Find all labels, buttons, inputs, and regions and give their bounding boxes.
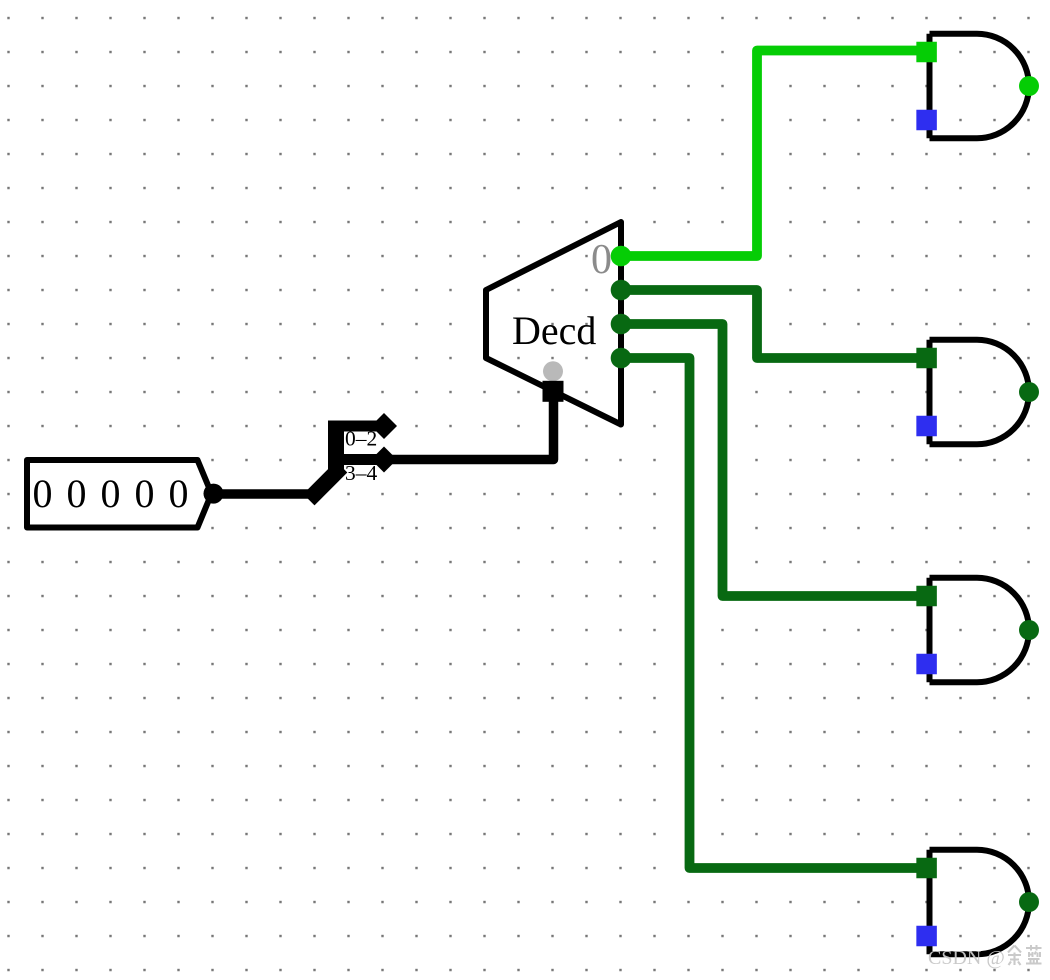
gate G2 input B port square (floating) <box>916 416 937 437</box>
svg-text:0: 0 <box>67 471 87 516</box>
gate G3 input B port square (floating) <box>916 654 937 675</box>
svg-text:0: 0 <box>33 471 53 516</box>
decoder output port 0 dot <box>611 246 632 267</box>
wire decoder out0 to gate1 (true) <box>621 51 926 257</box>
svg-text:Decd: Decd <box>512 308 596 353</box>
decoder U1 Decd <box>486 222 621 425</box>
svg-text:0: 0 <box>101 471 121 516</box>
splitter branch 3-4 <box>336 454 384 465</box>
AND gate G4 body <box>930 850 1029 954</box>
wire decoder out1 to gate2 <box>621 290 926 358</box>
AND gate G3 body <box>930 578 1029 682</box>
decoder output port 2 dot <box>611 314 632 335</box>
gate G4 output dot <box>1019 892 1039 912</box>
svg-text:0: 0 <box>169 471 189 516</box>
svg-text:CSDN @: CSDN @ <box>928 947 1005 969</box>
svg-text:0: 0 <box>135 471 155 516</box>
AND gate G2 body <box>930 340 1029 444</box>
gate G1 input B port square (floating) <box>916 110 937 131</box>
splitter stem diagonal <box>315 473 337 495</box>
AND gate G1 body <box>930 34 1029 138</box>
svg-text:3–4: 3–4 <box>345 461 378 485</box>
svg-text:0–2: 0–2 <box>345 427 377 451</box>
splitter spine <box>328 421 344 473</box>
gate G4 input A port square <box>916 858 937 879</box>
svg-text:0: 0 <box>591 237 612 283</box>
gate G2 output dot <box>1019 382 1039 402</box>
gate G1 output dot <box>1019 76 1039 96</box>
wire to decoder select <box>384 392 554 460</box>
decoder output port 1 dot <box>611 280 632 301</box>
decoder output port 3 dot <box>611 348 632 369</box>
gate G4 input B port square (floating) <box>916 926 937 947</box>
pin output dot <box>204 484 224 504</box>
input pin P1 value 00000 <box>27 460 212 528</box>
gate G1 input A port square <box>916 42 937 63</box>
decoder enable dot gray <box>543 361 563 381</box>
wire decoder out2 to gate3 <box>621 324 926 596</box>
gate G3 input A port square <box>916 586 937 607</box>
gate G2 input A port square <box>916 348 937 369</box>
watermark CSDN @yulan <box>928 945 1042 969</box>
gate G3 output dot <box>1019 620 1039 640</box>
wire pin to splitter <box>214 489 317 499</box>
wire decoder out3 to gate4 <box>621 358 926 868</box>
decoder select pin square <box>543 381 564 402</box>
splitter branch 0-2 <box>336 421 384 432</box>
